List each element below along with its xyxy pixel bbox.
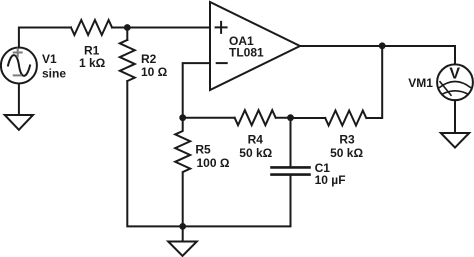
svg-text:sine: sine xyxy=(42,66,66,80)
wire R1 to op-amp + input xyxy=(112,27,210,29)
svg-text:V1: V1 xyxy=(42,52,57,66)
voltage source V1 xyxy=(1,48,37,84)
resistor R3 xyxy=(325,111,366,126)
wire op-amp output xyxy=(300,46,455,64)
svg-text:50 kΩ: 50 kΩ xyxy=(239,146,272,160)
wire node B to R3 xyxy=(291,117,326,119)
svg-text:R2: R2 xyxy=(141,52,157,66)
svg-text:R5: R5 xyxy=(195,143,211,157)
wire - input to feedback node xyxy=(183,63,210,118)
op-amp - input marker xyxy=(217,62,227,64)
node junction B at R4/R3/C1 xyxy=(287,114,294,121)
capacitor C1 xyxy=(183,118,310,227)
wire node A to R4 xyxy=(183,117,235,119)
wire junction to R2 xyxy=(126,28,128,41)
svg-text:R3: R3 xyxy=(339,133,355,147)
svg-text:TL081: TL081 xyxy=(229,45,264,59)
voltmeter VM1 xyxy=(437,64,473,100)
svg-text:10 Ω: 10 Ω xyxy=(141,65,168,79)
svg-text:50 kΩ: 50 kΩ xyxy=(330,146,363,160)
wire V1 bottom to ground xyxy=(18,84,20,116)
wire R2 bottom to bottom rail xyxy=(127,81,182,226)
resistor R4 xyxy=(235,110,276,125)
svg-text:1 kΩ: 1 kΩ xyxy=(79,56,106,70)
op-amp + input marker xyxy=(216,22,227,33)
resistor R2 xyxy=(120,40,135,81)
resistor R1 xyxy=(71,20,112,35)
ground symbol under V1 xyxy=(5,115,33,130)
wire VM1 to ground xyxy=(454,100,456,133)
wire R4 to node B xyxy=(276,117,291,119)
node junction output xyxy=(379,42,386,49)
op-amp U1 OA1 triangle xyxy=(210,2,300,90)
svg-text:R4: R4 xyxy=(248,133,264,147)
svg-text:100 Ω: 100 Ω xyxy=(197,156,230,170)
wire R3 right lead up to output xyxy=(367,46,383,118)
node junction ground rail xyxy=(179,223,186,230)
ground symbol under VM1 xyxy=(441,133,469,148)
wire junction to ground xyxy=(182,226,184,241)
svg-text:10 µF: 10 µF xyxy=(315,173,346,187)
node junction feedback A xyxy=(179,114,186,121)
svg-text:V: V xyxy=(449,65,460,82)
resistor R5 xyxy=(175,118,190,227)
ground symbol bottom center xyxy=(168,242,197,256)
node junction at R1/R2 xyxy=(124,24,131,31)
wire V1 top to R1 xyxy=(19,28,71,48)
svg-text:VM1: VM1 xyxy=(408,76,433,90)
